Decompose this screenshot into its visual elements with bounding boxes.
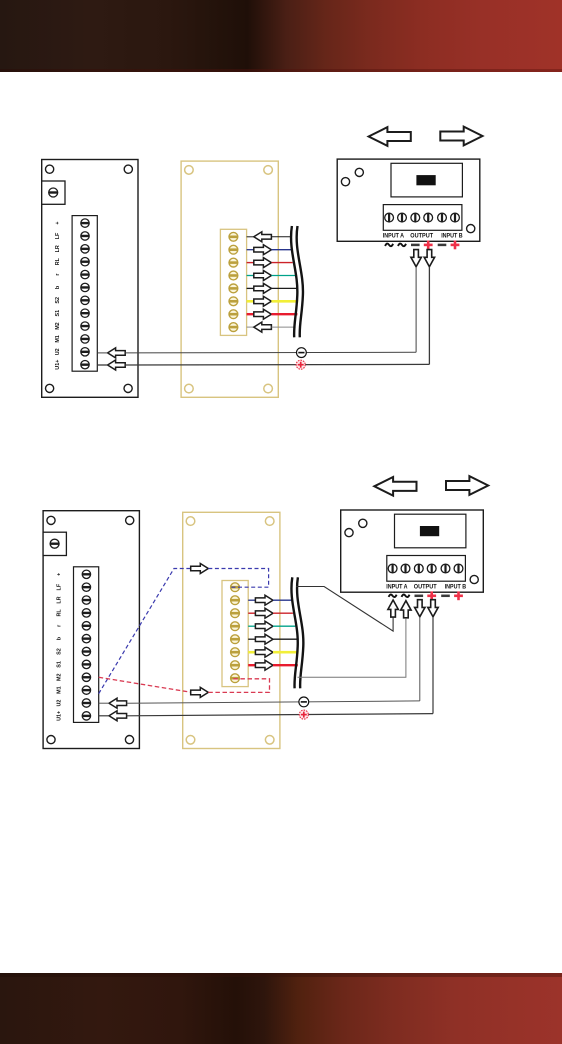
- door controller A4 label OUTPUT: [410, 233, 433, 240]
- door controller A4 corner hole: [467, 225, 475, 233]
- distributor A2 mounting hole 4: [264, 384, 273, 393]
- dashed red wire to distributor terminal 8: [208, 679, 269, 693]
- arrow out of distributor row 4: [254, 271, 272, 281]
- distributor A2 mounting hole 3: [185, 384, 194, 393]
- dashed red wire station pin9 to arrow: [99, 677, 192, 692]
- door controller A4 polarity mark ~ (screw 2): [398, 244, 406, 247]
- station B1 pin label M1: [56, 686, 62, 694]
- station A1 pin label U2: [55, 348, 61, 355]
- wire row 4 to cable: [273, 625, 295, 627]
- station B1 mounting hole 3: [47, 736, 55, 744]
- door controller A4 polarity mark plus (screw 6): [451, 241, 460, 250]
- door controller A4 enclosure: [337, 159, 480, 241]
- door controller B4 polarity mark minus (screw 3): [415, 595, 424, 598]
- door controller B4 polarity mark minus (screw 5): [441, 595, 450, 598]
- svg-text:RL: RL: [56, 609, 62, 617]
- distributor B2 mounting hole 4: [265, 736, 274, 745]
- arrow into station terminal U1+ (B): [109, 711, 127, 721]
- station B1 terminal S2 (pin 7): [82, 647, 90, 655]
- svg-text:U1+: U1+: [55, 360, 61, 370]
- station B1 pin label +: [56, 573, 62, 576]
- arrow out of distributor row 7: [255, 660, 273, 670]
- wire row 6 to cable: [273, 651, 299, 654]
- wire row 5 to cable: [273, 638, 298, 640]
- station A1 terminal r (pin 5): [81, 270, 89, 278]
- station B1 terminal LR (pin 3): [82, 596, 90, 604]
- distributor B2 terminal 4: [231, 622, 240, 631]
- arrow out of distributor row 2: [254, 245, 272, 255]
- station B1 adjuster screw: [50, 539, 59, 548]
- door controller B4 corner hole: [470, 575, 478, 583]
- station A1 adjuster box: [42, 181, 65, 204]
- station A1 pin label S1: [55, 310, 61, 317]
- arrow into distributor row 1: [254, 232, 272, 242]
- station A1 pin label M1: [55, 335, 61, 343]
- svg-text:LF: LF: [55, 232, 61, 239]
- wire stub row 1: [247, 236, 254, 238]
- svg-text:S1: S1: [56, 661, 62, 668]
- cable B3 sheath line 1: [291, 577, 297, 688]
- door controller A4 label INPUT B: [441, 233, 463, 240]
- svg-text:S1: S1: [55, 310, 61, 317]
- distributor B2 terminal 8: [231, 674, 240, 683]
- distributor A2 terminal 5: [229, 284, 238, 293]
- door controller B4 polarity mark plus (screw 4): [427, 591, 436, 600]
- wire stub row 4: [247, 275, 254, 277]
- station B1 terminal S1 (pin 8): [82, 660, 90, 668]
- wire row 3 to cable: [271, 262, 292, 264]
- door controller B4 terminal block: [387, 556, 466, 582]
- door controller B4 polarity mark ~ (screw 2): [402, 594, 410, 597]
- arrow OUTPUT minus down: [411, 250, 421, 267]
- door controller B4 terminal screw 2: [401, 564, 410, 573]
- distributor A2 terminal strip: [220, 229, 246, 335]
- door controller A4 terminal screw 5: [438, 213, 447, 222]
- wire stub terminal 12 (B): [99, 715, 109, 717]
- station A1 pin label b: [55, 285, 61, 289]
- arrow OUTPUT plus down: [424, 250, 434, 267]
- door controller A4 label INPUT A: [383, 233, 405, 240]
- arrow out of distributor row 3: [255, 608, 273, 618]
- svg-text:U1+: U1+: [56, 711, 62, 721]
- arrow INPUT A-2 up: [401, 601, 411, 618]
- distributor B2 enclosure: [183, 512, 280, 748]
- door controller B4 terminal screw 4: [427, 564, 436, 573]
- station B1 terminal M2 (pin 9): [82, 673, 90, 681]
- arrow INPUT A-1 up: [388, 600, 398, 617]
- svg-text:M1: M1: [56, 686, 62, 694]
- door controller B4 terminal screw 1: [388, 564, 397, 573]
- station A1 pin label U1+: [55, 360, 61, 370]
- door controller A4 display: [416, 175, 435, 185]
- distributor B2 mounting hole 2: [265, 517, 274, 526]
- door controller B4 display: [420, 526, 439, 536]
- svg-text:LR: LR: [55, 245, 61, 252]
- station A1 pin label LR: [55, 245, 61, 252]
- wire stub row 4: [248, 625, 255, 627]
- station B1 pin label b: [56, 636, 62, 640]
- svg-text:INPUT B: INPUT B: [441, 233, 463, 240]
- wire stub row 7: [248, 664, 255, 666]
- svg-text:OUTPUT: OUTPUT: [414, 583, 437, 590]
- arrow on dashed red wire: [191, 687, 209, 697]
- svg-text:S2: S2: [56, 648, 62, 655]
- arrow OUTPUT plus down (B): [428, 600, 438, 617]
- wire stub row 8: [247, 326, 254, 328]
- door controller A4 terminal screw 3: [411, 213, 420, 222]
- wire OUTPUT plus vertical: [428, 267, 430, 365]
- door controller A4 terminal screw 1: [385, 213, 394, 222]
- footer band: [0, 973, 562, 1044]
- door controller A4 terminal screw 6: [451, 213, 460, 222]
- station B1 mounting hole 1: [47, 516, 55, 524]
- wire stub terminal 12: [97, 364, 107, 366]
- wire stub row 3: [248, 612, 255, 614]
- door controller A4 polarity mark plus (screw 4): [424, 241, 433, 250]
- arrow out of distributor row 6: [255, 647, 273, 657]
- node minus (B): [299, 697, 309, 707]
- station A1 terminal S2 (pin 7): [81, 296, 89, 304]
- svg-text:+: +: [56, 573, 62, 576]
- wire plus bus: [125, 363, 429, 366]
- station B1 pin label S1: [56, 661, 62, 668]
- arrow into station terminal M1: [108, 348, 126, 358]
- wire stub row 6: [248, 651, 255, 654]
- distributor B2 terminal 6: [231, 648, 240, 657]
- distributor A2 mounting hole 1: [185, 166, 194, 175]
- station A1 terminal M2 (pin 9): [81, 322, 89, 330]
- door controller B4 enclosure: [341, 510, 484, 592]
- wire row 1 to cable: [271, 236, 291, 238]
- wire row 8 to cable: [271, 326, 295, 328]
- arrow OUTPUT minus down (B): [415, 600, 425, 617]
- station B1 pin label M2: [56, 674, 62, 682]
- station A1 terminal M1 (pin 10): [81, 335, 89, 343]
- door controller B4 terminal screw 5: [441, 564, 450, 573]
- door direction arrow right (B): [446, 476, 488, 495]
- distributor A2 enclosure: [181, 161, 278, 397]
- node minus: [297, 348, 307, 358]
- station A1 terminal + (pin 1): [81, 219, 89, 227]
- distributor A2 terminal 2: [229, 245, 238, 254]
- svg-text:INPUT A: INPUT A: [386, 583, 408, 590]
- station A1 terminal S1 (pin 8): [81, 309, 89, 317]
- wire row 2 to cable: [271, 249, 291, 251]
- door controller A4 hole 1: [341, 178, 349, 186]
- wire OUTPUT plus vertical (B): [432, 617, 434, 714]
- door controller B4 label OUTPUT: [414, 583, 437, 590]
- dashed blue wire station pin10 to distributor row1: [99, 569, 192, 694]
- door controller A4 terminal block: [383, 205, 462, 231]
- svg-text:INPUT B: INPUT B: [445, 583, 467, 590]
- station A1 terminal LF (pin 2): [81, 232, 89, 240]
- station B1 terminal U2 (pin 11): [82, 699, 90, 707]
- station B1 adjuster box: [43, 532, 66, 555]
- wire row 2 to cable: [273, 599, 291, 601]
- arrow out of distributor row 7: [254, 309, 272, 319]
- station B1 pin label LR: [56, 596, 62, 603]
- door controller B4 polarity mark plus (screw 6): [454, 591, 463, 600]
- door direction arrow left: [369, 127, 411, 146]
- station B1 terminal M1 (pin 10): [82, 686, 90, 694]
- station A1 terminal LR (pin 3): [81, 245, 89, 253]
- door controller B4 terminal screw 3: [414, 564, 423, 573]
- door controller A4 hole 2: [355, 168, 363, 176]
- station B1 pin label U2: [56, 700, 62, 707]
- arrow out of distributor row 3: [254, 258, 272, 268]
- distributor A2 terminal 4: [229, 271, 238, 280]
- arrow into station terminal U1+: [108, 360, 126, 370]
- wire stub row 6: [247, 300, 254, 303]
- door controller A4 terminal screw 4: [424, 213, 433, 222]
- wire stub row 5: [247, 287, 254, 289]
- station B1 terminal U1+ (pin 12): [82, 712, 90, 720]
- station B1 pin label r: [56, 624, 62, 627]
- station B1 mounting hole 2: [126, 516, 134, 524]
- door controller A4 display window: [391, 163, 462, 197]
- door controller B4 label INPUT B: [445, 583, 467, 590]
- cable B3 sheath line 2: [297, 577, 303, 688]
- svg-text:INPUT A: INPUT A: [383, 233, 405, 240]
- wire row 7 to cable: [271, 313, 297, 315]
- svg-text:+: +: [55, 222, 61, 225]
- station B1 terminal RL (pin 4): [82, 609, 90, 617]
- wire minus bus: [125, 351, 416, 354]
- distributor B2 terminal 5: [231, 635, 240, 644]
- station B1 terminal b (pin 6): [82, 634, 90, 642]
- svg-text:OUTPUT: OUTPUT: [410, 233, 433, 240]
- station A1 mounting hole 4: [124, 384, 132, 392]
- cable A3 sheath line 1: [291, 226, 297, 337]
- station A1 terminal RL (pin 4): [81, 258, 89, 266]
- distributor A2 terminal 8: [229, 323, 238, 332]
- distributor B2 mounting hole 1: [186, 517, 195, 526]
- station A1 pin label LF: [55, 232, 61, 239]
- wire stub row 7: [247, 313, 254, 315]
- station B1 terminal r (pin 5): [82, 622, 90, 630]
- door controller B4 display window: [395, 514, 466, 548]
- station B1 pin label U1+: [56, 711, 62, 721]
- svg-text:LR: LR: [56, 596, 62, 603]
- door controller B4 terminal screw 6: [454, 564, 463, 573]
- svg-text:LF: LF: [56, 583, 62, 590]
- station A1 mounting hole 1: [46, 165, 54, 173]
- svg-text:U2: U2: [55, 348, 61, 355]
- wire row 6 to cable: [271, 300, 298, 303]
- wire OUTPUT minus vertical (B): [419, 617, 421, 701]
- door controller B4 hole 1: [345, 529, 353, 537]
- station A1 terminal U1+ (pin 12): [81, 360, 89, 368]
- wire plus bus (B): [127, 714, 433, 716]
- station A1 terminal strip: [72, 216, 97, 372]
- arrow out of distributor row 6: [254, 296, 272, 306]
- cable A3 sheath line 2: [297, 226, 303, 337]
- station A1 enclosure: [42, 160, 138, 398]
- station A1 pin label M2: [55, 322, 61, 330]
- distributor A2 terminal 1: [229, 232, 238, 241]
- distributor B2 mounting hole 3: [186, 736, 195, 745]
- distributor B2 terminal 7: [231, 661, 240, 670]
- arrow out of distributor row 5: [255, 634, 273, 644]
- distributor A2 terminal 6: [229, 297, 238, 306]
- distributor B2 terminal 2: [231, 596, 240, 605]
- station A1 pin label r: [55, 273, 61, 276]
- wire stub terminal 11: [97, 352, 107, 354]
- distributor B2 terminal 3: [231, 609, 240, 618]
- svg-text:U2: U2: [56, 700, 62, 707]
- distributor A2 mounting hole 2: [264, 166, 273, 175]
- wire row 7 to cable: [273, 664, 298, 666]
- arrow into station terminal M1 (B): [109, 698, 127, 708]
- wire stub row 5: [248, 638, 255, 640]
- dashed blue wire to distributor terminal 1: [208, 569, 268, 588]
- station A1 terminal U2 (pin 11): [81, 348, 89, 356]
- arrow out of distributor row 5: [254, 283, 272, 293]
- door controller B4 label INPUT A: [386, 583, 408, 590]
- door controller B4 hole 2: [359, 519, 367, 527]
- wire cable bottom to controller input: [298, 618, 406, 677]
- station B1 terminal + (pin 1): [82, 570, 90, 578]
- door direction arrow right: [440, 127, 482, 146]
- station B1 pin label LF: [56, 583, 62, 590]
- station B1 pin label RL: [56, 609, 62, 617]
- station B1 enclosure: [43, 511, 139, 749]
- wire minus bus (B): [127, 701, 420, 703]
- svg-text:M2: M2: [55, 322, 61, 330]
- svg-text:M1: M1: [55, 335, 61, 343]
- arrow out of distributor row 2: [255, 595, 273, 605]
- station B1 mounting hole 4: [125, 736, 133, 744]
- distributor A2 terminal 7: [229, 310, 238, 319]
- node plus: [296, 360, 305, 369]
- station A1 mounting hole 2: [124, 165, 132, 173]
- node plus (B): [299, 710, 308, 719]
- station A1 pin label S2: [55, 297, 61, 304]
- distributor B2 terminal 1: [231, 583, 240, 592]
- door controller A4 polarity mark minus (screw 5): [438, 244, 447, 247]
- station A1 pin label +: [55, 222, 61, 225]
- wire row 4 to cable: [271, 275, 295, 277]
- distributor A2 terminal 3: [229, 258, 238, 267]
- wire OUTPUT minus vertical: [415, 267, 417, 353]
- wire cable top to controller input: [296, 587, 393, 632]
- distributor B2 terminal strip: [222, 581, 248, 687]
- station B1 pin label S2: [56, 648, 62, 655]
- station A1 adjuster screw: [49, 188, 58, 197]
- svg-text:S2: S2: [55, 297, 61, 304]
- door controller A4 polarity mark minus (screw 3): [411, 244, 420, 247]
- arrow out of distributor row 4: [255, 621, 273, 631]
- wire stub terminal 11 (B): [99, 702, 109, 704]
- door direction arrow left (B): [374, 477, 416, 496]
- wire row 5 to cable: [271, 287, 297, 289]
- wire row 3 to cable: [273, 612, 293, 614]
- station A1 pin label RL: [55, 257, 61, 265]
- door controller B4 polarity mark ~ (screw 1): [389, 594, 397, 597]
- door controller A4 polarity mark ~ (screw 1): [385, 244, 393, 247]
- station A1 mounting hole 3: [46, 384, 54, 392]
- arrow into distributor row 8: [254, 322, 272, 332]
- svg-text:RL: RL: [55, 257, 61, 265]
- svg-text:M2: M2: [56, 674, 62, 682]
- wire stub row 3: [247, 262, 254, 264]
- header band: [0, 0, 562, 72]
- door controller A4 terminal screw 2: [398, 213, 407, 222]
- wire stub row 2: [247, 249, 254, 251]
- station B1 terminal LF (pin 2): [82, 583, 90, 591]
- wire stub row 2: [248, 599, 255, 601]
- station B1 terminal strip: [74, 567, 99, 723]
- arrow on dashed blue wire: [191, 564, 209, 574]
- station A1 terminal b (pin 6): [81, 283, 89, 291]
